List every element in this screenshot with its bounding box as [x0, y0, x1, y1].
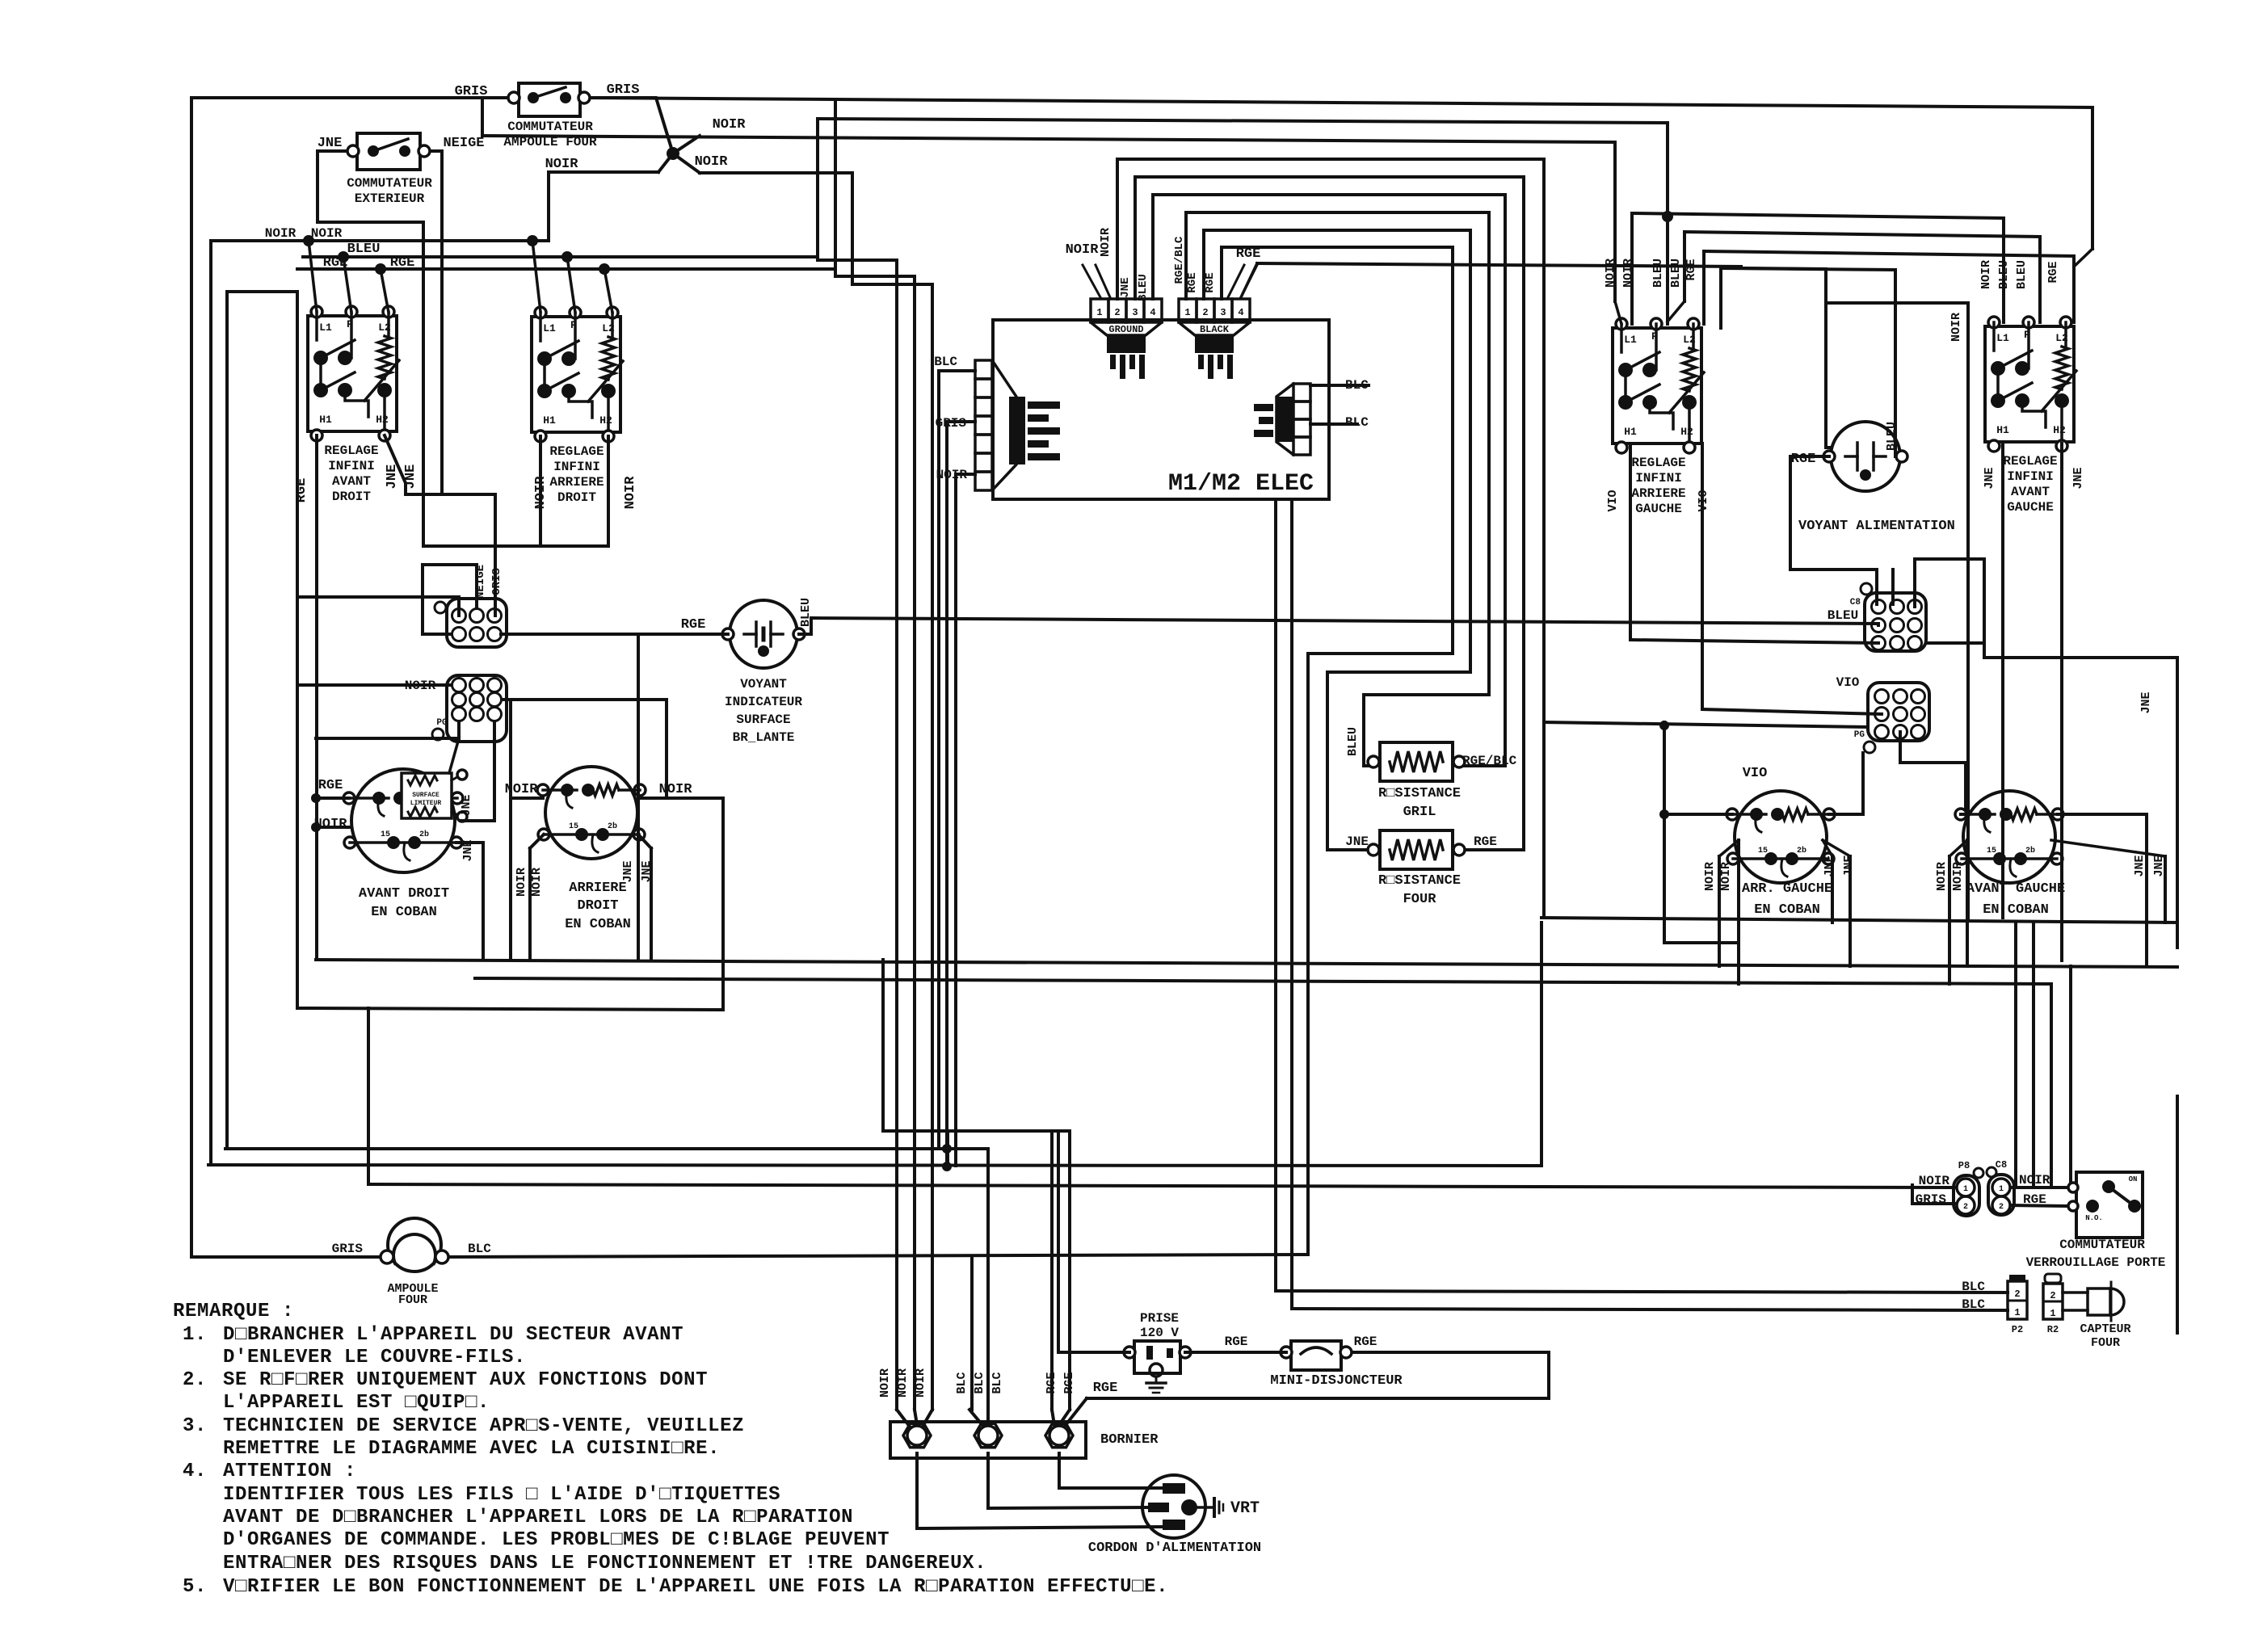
- svg-text:BLC: BLC: [955, 1372, 969, 1393]
- svg-text:NOIR: NOIR: [695, 154, 729, 170]
- svg-text:N.O.: N.O.: [2085, 1214, 2103, 1222]
- svg-text:D'ENLEVER LE COUVRE-FILS.: D'ENLEVER LE COUVRE-FILS.: [223, 1347, 526, 1368]
- svg-text:GRIS: GRIS: [455, 84, 488, 99]
- svg-text:PG: PG: [436, 718, 448, 728]
- svg-text:VERROUILLAGE PORTE: VERROUILLAGE PORTE: [2026, 1255, 2166, 1270]
- svg-text:REGLAGE: REGLAGE: [549, 444, 604, 459]
- svg-text:120 V: 120 V: [1140, 1326, 1179, 1340]
- svg-text:RGE: RGE: [2046, 261, 2060, 283]
- svg-text:BLC: BLC: [990, 1372, 1004, 1393]
- svg-text:DROIT: DROIT: [332, 490, 371, 504]
- svg-text:1: 1: [1096, 307, 1102, 318]
- svg-text:BORNIER: BORNIER: [1100, 1432, 1159, 1448]
- svg-text:2: 2: [1963, 1203, 1968, 1212]
- svg-text:INFINI: INFINI: [328, 459, 375, 473]
- svg-text:NOIR: NOIR: [1719, 862, 1733, 891]
- svg-text:NOIR: NOIR: [1935, 862, 1949, 891]
- svg-text:BLEU: BLEU: [347, 242, 381, 257]
- svg-text:15: 15: [381, 830, 390, 839]
- svg-text:REMETTRE LE DIAGRAMME AVEC LA: REMETTRE LE DIAGRAMME AVEC LA CUISINI□RE…: [223, 1438, 720, 1460]
- svg-text:RGE: RGE: [681, 617, 706, 633]
- svg-text:2: 2: [2050, 1290, 2055, 1301]
- svg-text:RGE: RGE: [1093, 1381, 1118, 1396]
- svg-text:D'ORGANES DE COMMANDE. LES PRO: D'ORGANES DE COMMANDE. LES PROBL□MES DE …: [223, 1529, 890, 1551]
- svg-text:D□BRANCHER L'APPAREIL DU SECTE: D□BRANCHER L'APPAREIL DU SECTEUR AVANT: [223, 1324, 683, 1346]
- svg-text:NOIR: NOIR: [713, 117, 747, 132]
- svg-text:LIMITEUR: LIMITEUR: [410, 800, 442, 807]
- svg-text:ARRIERE: ARRIERE: [549, 475, 604, 490]
- svg-text:4: 4: [1238, 307, 1243, 318]
- svg-text:EXTERIEUR: EXTERIEUR: [355, 191, 425, 206]
- svg-text:BLC: BLC: [1962, 1280, 1985, 1294]
- svg-text:JNE: JNE: [1983, 467, 1996, 489]
- svg-text:REGLAGE: REGLAGE: [1631, 456, 1685, 470]
- svg-text:3: 3: [1132, 307, 1138, 318]
- svg-text:RGE: RGE: [318, 778, 343, 793]
- svg-text:P2: P2: [2012, 1324, 2023, 1335]
- svg-text:RGE: RGE: [1474, 834, 1497, 849]
- svg-text:GAUCHE: GAUCHE: [2007, 500, 2054, 515]
- svg-text:H1: H1: [543, 414, 556, 427]
- svg-text:2b: 2b: [419, 830, 429, 839]
- svg-text:FOUR: FOUR: [2091, 1336, 2120, 1350]
- svg-text:R□SISTANCE: R□SISTANCE: [1378, 786, 1461, 801]
- svg-text:RGE: RGE: [1186, 272, 1199, 292]
- svg-text:JNE: JNE: [1345, 834, 1369, 849]
- svg-text:ARRIERE: ARRIERE: [1631, 486, 1685, 501]
- svg-text:2b: 2b: [608, 822, 617, 831]
- svg-text:2: 2: [1114, 307, 1120, 318]
- svg-text:GRIS: GRIS: [1916, 1192, 1947, 1207]
- svg-text:5.: 5.: [183, 1576, 207, 1598]
- svg-text:NOIR: NOIR: [623, 476, 638, 510]
- svg-text:P8: P8: [1958, 1160, 1970, 1171]
- svg-text:CORDON D'ALIMENTATION: CORDON D'ALIMENTATION: [1088, 1541, 1261, 1556]
- svg-text:RGE: RGE: [294, 478, 309, 503]
- svg-text:FOUR: FOUR: [1403, 892, 1437, 907]
- svg-text:JNE: JNE: [621, 860, 635, 882]
- svg-text:3.: 3.: [183, 1415, 207, 1437]
- svg-text:C8: C8: [1996, 1159, 2007, 1171]
- svg-text:NOIR: NOIR: [878, 1368, 892, 1398]
- svg-text:M1/M2 ELEC: M1/M2 ELEC: [1168, 470, 1314, 498]
- svg-text:INFINI: INFINI: [553, 460, 600, 474]
- svg-text:L1: L1: [319, 322, 332, 334]
- svg-text:PRISE: PRISE: [1140, 1311, 1179, 1326]
- svg-text:NOIR: NOIR: [1703, 862, 1717, 891]
- svg-text:JNE: JNE: [1119, 277, 1132, 297]
- svg-text:AVANT DE D□BRANCHER L'APPAREIL: AVANT DE D□BRANCHER L'APPAREIL LORS DE L…: [223, 1507, 853, 1528]
- svg-text:CAPTEUR: CAPTEUR: [2080, 1322, 2130, 1336]
- svg-text:H2: H2: [376, 414, 389, 426]
- svg-text:NOIR: NOIR: [530, 868, 544, 897]
- svg-text:1: 1: [1184, 307, 1190, 318]
- svg-text:RGE: RGE: [1684, 259, 1698, 280]
- svg-text:NEIGE: NEIGE: [474, 565, 487, 599]
- svg-text:2b: 2b: [1797, 846, 1806, 855]
- svg-text:BLEU: BLEU: [1651, 259, 1665, 288]
- svg-text:4: 4: [1150, 307, 1155, 318]
- svg-text:BR_LANTE: BR_LANTE: [733, 730, 795, 745]
- svg-text:BLC: BLC: [468, 1242, 491, 1256]
- svg-text:BLACK: BLACK: [1200, 324, 1230, 335]
- svg-text:NOIR: NOIR: [1979, 260, 1993, 289]
- svg-text:4.: 4.: [183, 1461, 207, 1482]
- svg-text:COMMUTATEUR: COMMUTATEUR: [2059, 1238, 2145, 1252]
- svg-text:1: 1: [2050, 1308, 2055, 1319]
- svg-text:R2: R2: [2047, 1324, 2059, 1335]
- svg-text:NOIR: NOIR: [1949, 313, 1963, 342]
- svg-text:2b: 2b: [2025, 846, 2035, 855]
- svg-text:NOIR: NOIR: [896, 1368, 910, 1398]
- svg-text:REGLAGE: REGLAGE: [2003, 454, 2057, 469]
- svg-text:INFINI: INFINI: [1635, 471, 1682, 486]
- svg-text:2: 2: [1202, 307, 1208, 318]
- svg-text:3: 3: [1220, 307, 1226, 318]
- svg-text:INFINI: INFINI: [2007, 469, 2054, 484]
- svg-text:NOIR: NOIR: [515, 868, 528, 897]
- svg-text:NOIR: NOIR: [311, 226, 343, 241]
- svg-text:BLC: BLC: [934, 355, 957, 369]
- svg-text:BLEU: BLEU: [1827, 608, 1858, 623]
- svg-text:AVANT DROIT: AVANT DROIT: [359, 886, 449, 902]
- svg-text:1: 1: [2014, 1307, 2020, 1318]
- svg-text:GAUCHE: GAUCHE: [1635, 502, 1682, 516]
- svg-text:RGE/BLC: RGE/BLC: [1462, 754, 1517, 768]
- svg-text:L'APPAREIL EST □QUIP□.: L'APPAREIL EST □QUIP□.: [223, 1392, 490, 1414]
- svg-text:H1: H1: [1624, 426, 1637, 438]
- svg-text:VOYANT ALIMENTATION: VOYANT ALIMENTATION: [1798, 519, 1955, 534]
- svg-text:NOIR: NOIR: [659, 782, 693, 797]
- svg-text:JNE: JNE: [2133, 855, 2147, 876]
- svg-text:PG: PG: [1854, 730, 1865, 740]
- svg-text:R□SISTANCE: R□SISTANCE: [1378, 873, 1461, 889]
- svg-text:EN COBAN: EN COBAN: [371, 905, 437, 920]
- svg-text:INDICATEUR: INDICATEUR: [725, 695, 802, 709]
- svg-text:NOIR: NOIR: [1099, 228, 1112, 257]
- svg-text:SURFACE: SURFACE: [736, 713, 790, 727]
- svg-text:NOIR: NOIR: [914, 1368, 927, 1398]
- svg-text:BLC: BLC: [1962, 1297, 1985, 1312]
- svg-text:VIO: VIO: [1836, 675, 1860, 690]
- svg-text:H2: H2: [2053, 424, 2066, 436]
- svg-text:GROUND: GROUND: [1108, 324, 1143, 335]
- svg-text:C8: C8: [1850, 598, 1861, 607]
- svg-text:JNE: JNE: [318, 136, 343, 151]
- svg-text:VRT: VRT: [1230, 1499, 1260, 1518]
- svg-text:H1: H1: [1996, 424, 2009, 436]
- svg-text:15: 15: [569, 822, 578, 831]
- svg-text:NOIR: NOIR: [1919, 1174, 1950, 1188]
- svg-text:GRIS: GRIS: [332, 1242, 364, 1256]
- svg-text:RGE: RGE: [1225, 1335, 1248, 1349]
- svg-text:NOIR: NOIR: [2019, 1173, 2050, 1188]
- svg-text:ATTENTION :: ATTENTION :: [223, 1461, 356, 1482]
- svg-text:AMPOULE FOUR: AMPOULE FOUR: [503, 135, 597, 149]
- svg-text:RGE: RGE: [1204, 272, 1217, 292]
- svg-text:DROIT: DROIT: [557, 490, 596, 505]
- svg-text:SURFACE: SURFACE: [412, 792, 440, 799]
- svg-text:BLC: BLC: [973, 1372, 986, 1393]
- svg-text:AVANT: AVANT: [332, 474, 371, 489]
- svg-text:1: 1: [1999, 1185, 2004, 1194]
- svg-text:L1: L1: [543, 322, 556, 334]
- svg-text:15: 15: [1987, 847, 1996, 855]
- svg-text:NOIR: NOIR: [1951, 862, 1965, 891]
- svg-text:NOIR: NOIR: [545, 157, 579, 172]
- svg-text:RGE: RGE: [390, 255, 415, 271]
- svg-text:AVANT: AVANT: [2011, 485, 2050, 499]
- svg-text:COMMUTATEUR: COMMUTATEUR: [507, 120, 593, 134]
- svg-text:2: 2: [1999, 1203, 2004, 1212]
- svg-text:JNE: JNE: [1823, 855, 1836, 876]
- svg-text:EN COBAN: EN COBAN: [1754, 902, 1820, 918]
- svg-text:VIO: VIO: [1606, 490, 1620, 511]
- svg-text:JNE: JNE: [460, 794, 473, 816]
- svg-text:BLEU: BLEU: [1669, 259, 1683, 288]
- svg-text:1: 1: [1963, 1185, 1968, 1194]
- svg-text:ON: ON: [2129, 1175, 2138, 1183]
- svg-text:NOIR: NOIR: [1066, 242, 1100, 258]
- svg-text:RGE: RGE: [1062, 1372, 1076, 1393]
- svg-text:IDENTIFIER TOUS LES FILS □ L'A: IDENTIFIER TOUS LES FILS □ L'AIDE D'□TIQ…: [223, 1484, 780, 1506]
- svg-text:TECHNICIEN DE SERVICE APR□S-VE: TECHNICIEN DE SERVICE APR□S-VENTE, VEUIL…: [223, 1415, 744, 1437]
- svg-text:RGE: RGE: [1791, 452, 1816, 467]
- svg-text:AVANT GAUCHE: AVANT GAUCHE: [1966, 881, 2065, 897]
- svg-text:RGE: RGE: [1354, 1335, 1377, 1349]
- svg-text:EN COBAN: EN COBAN: [565, 917, 631, 932]
- svg-text:GRIS: GRIS: [607, 82, 640, 98]
- svg-text:JNE: JNE: [2071, 467, 2085, 489]
- svg-text:NOIR: NOIR: [265, 226, 297, 241]
- svg-text:ARR. GAUCHE: ARR. GAUCHE: [1742, 881, 1832, 897]
- svg-text:REMARQUE :: REMARQUE :: [173, 1301, 294, 1322]
- svg-text:BLEU: BLEU: [1137, 274, 1150, 301]
- svg-text:GRIS: GRIS: [490, 568, 503, 595]
- svg-text:FOUR: FOUR: [398, 1293, 427, 1307]
- svg-text:GRIL: GRIL: [1403, 805, 1436, 820]
- svg-text:2: 2: [2014, 1288, 2020, 1300]
- svg-text:2.: 2.: [183, 1369, 207, 1391]
- svg-text:15: 15: [1758, 847, 1768, 855]
- svg-text:ARRIERE: ARRIERE: [569, 881, 626, 896]
- svg-text:L1: L1: [1996, 332, 2009, 344]
- svg-text:H1: H1: [319, 414, 332, 426]
- svg-text:REGLAGE: REGLAGE: [324, 443, 378, 458]
- svg-text:V□RIFIER LE BON FONCTIONNEMENT: V□RIFIER LE BON FONCTIONNEMENT DE L'APPA…: [223, 1576, 1168, 1598]
- svg-text:ENTRA□NER DES RISQUES DANS LE: ENTRA□NER DES RISQUES DANS LE FONCTIONNE…: [223, 1553, 986, 1574]
- svg-text:MINI-DISJONCTEUR: MINI-DISJONCTEUR: [1270, 1373, 1403, 1389]
- svg-text:EN COBAN: EN COBAN: [1983, 902, 2049, 918]
- svg-text:JNE: JNE: [2139, 691, 2153, 713]
- svg-text:1.: 1.: [183, 1324, 207, 1346]
- svg-text:VIO: VIO: [1743, 766, 1768, 781]
- svg-text:NEIGE: NEIGE: [443, 136, 484, 151]
- svg-text:BLEU: BLEU: [1346, 727, 1360, 756]
- svg-text:SE R□F□RER UNIQUEMENT AUX FONC: SE R□F□RER UNIQUEMENT AUX FONCTIONS DONT: [223, 1369, 708, 1391]
- svg-text:COMMUTATEUR: COMMUTATEUR: [347, 176, 432, 191]
- svg-text:RGE/BLC: RGE/BLC: [1173, 236, 1186, 284]
- svg-text:L1: L1: [1624, 334, 1637, 346]
- svg-text:RGE: RGE: [1045, 1372, 1058, 1393]
- svg-text:VOYANT: VOYANT: [740, 677, 787, 691]
- svg-text:DROIT: DROIT: [577, 898, 618, 914]
- svg-text:H2: H2: [1680, 426, 1693, 438]
- svg-text:BLEU: BLEU: [2015, 260, 2029, 289]
- svg-text:H2: H2: [599, 414, 612, 427]
